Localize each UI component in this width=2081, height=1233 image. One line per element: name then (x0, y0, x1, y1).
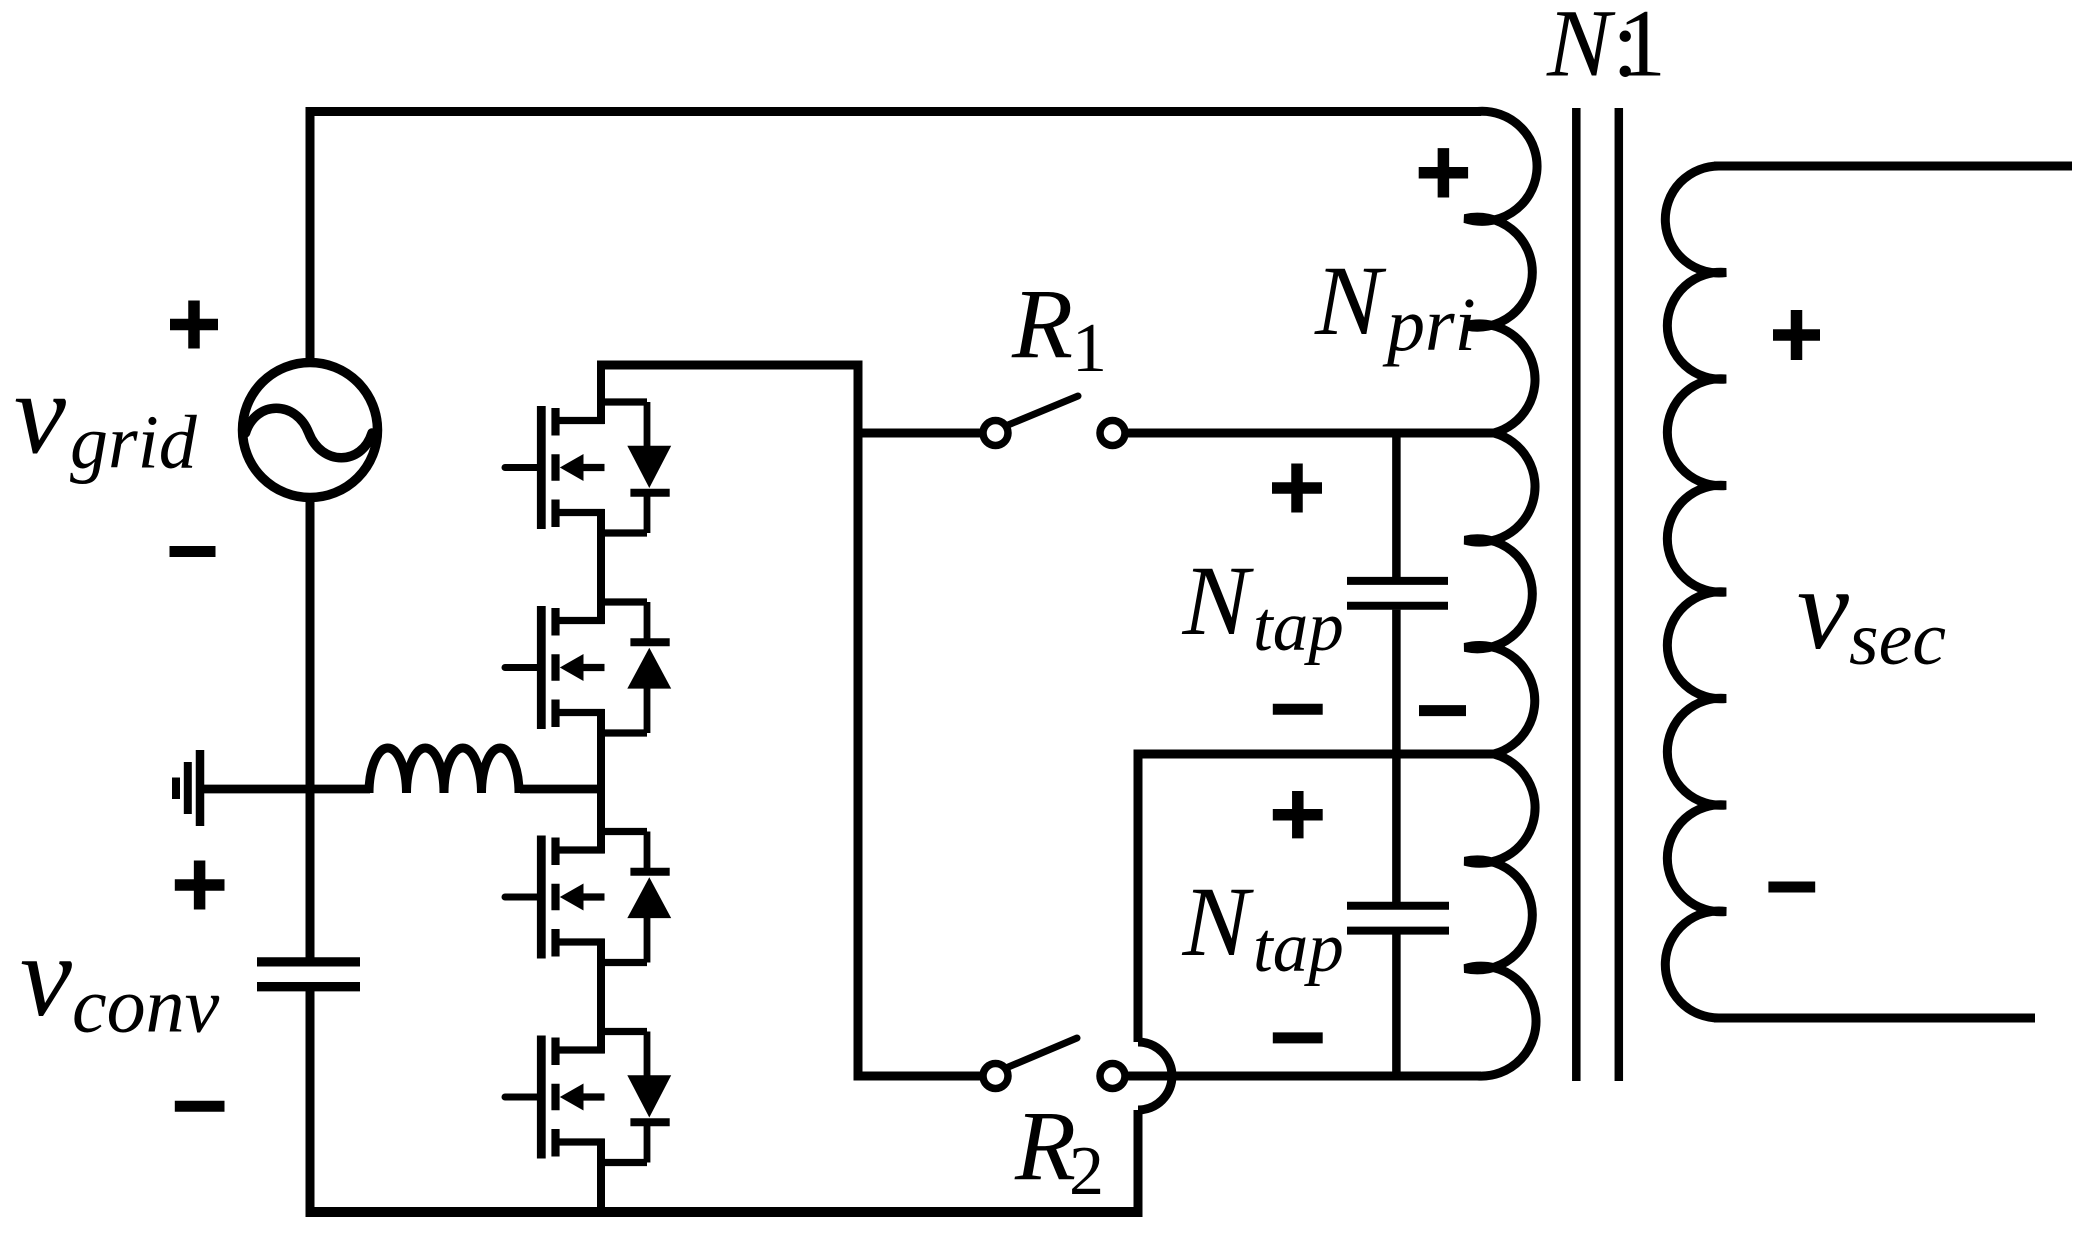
wire bridge rail segment Q4-bottom (597, 1163, 605, 1217)
label plus of Vsec (1773, 310, 1820, 360)
wire bottom rail (306, 1207, 1143, 1217)
wire secondary top (1714, 162, 2072, 171)
label minus of Ntap1 left (1273, 704, 1323, 715)
wire bridge top node horizontal (597, 361, 863, 370)
wire inductor to bridge mid node (520, 785, 605, 794)
wire hop over R2 wire (1138, 1042, 1172, 1110)
wire ground to node (204, 785, 370, 794)
svg-text:N: N (1314, 245, 1387, 356)
wire bridge rail segment top-node to Q1 (597, 361, 605, 403)
label minus of Vsec (1768, 882, 1815, 893)
label plus of Npri (1419, 148, 1468, 197)
label minus of Ntap2 (1273, 1032, 1323, 1043)
label minus of Ntap1 right (1419, 705, 1466, 716)
svg-text:tap: tap (1253, 909, 1344, 987)
transistor Q4 (505, 1028, 671, 1166)
svg-text:grid: grid (70, 401, 198, 485)
switch R1 blade (1008, 396, 1078, 425)
wire bridge rail segment Q1-Q2 (597, 533, 605, 602)
svg-text:conv: conv (72, 962, 220, 1049)
source Vgrid sine (246, 408, 373, 458)
wire tap2 horizontal (1134, 750, 1495, 759)
switch R1 right terminal (1100, 421, 1125, 446)
wire left rail lower (306, 991, 315, 1217)
wire capacitor string bottom (1392, 935, 1401, 1077)
source Vgrid circle (243, 363, 378, 498)
wire right vertical x=858 (854, 361, 863, 1081)
wire capacitor string top (1392, 433, 1401, 577)
svg-text:N: N (1182, 545, 1255, 656)
svg-text:N: N (1546, 0, 1616, 97)
label minus of Vconv (175, 1101, 225, 1112)
wire left rail middle (306, 494, 315, 958)
svg-text:1: 1 (1618, 0, 1666, 97)
transistor Q2 (505, 599, 671, 737)
svg-text:1: 1 (1072, 310, 1107, 387)
svg-text:2: 2 (1069, 1133, 1104, 1210)
svg-text:tap: tap (1253, 588, 1344, 666)
wire bridge rail segment Q2-Q3 (mid node) (597, 733, 605, 832)
label minus of Vgrid (170, 546, 216, 557)
wire to R1 left terminal (858, 429, 980, 438)
transistor Q3 (505, 828, 671, 966)
wire secondary bottom (1714, 1014, 2035, 1023)
svg-text:R: R (1014, 1090, 1076, 1201)
svg-text:pri: pri (1382, 283, 1476, 367)
wire bridge rail segment Q3-Q4 (597, 963, 605, 1032)
wire left rail upper (306, 107, 315, 365)
svg-text:v: v (20, 912, 72, 1041)
label plus of Ntap2 (1273, 791, 1323, 838)
transistor Q1 (505, 399, 671, 537)
ground symbol (176, 750, 200, 826)
label plus of Vconv (175, 861, 225, 910)
switch R2 blade (1006, 1038, 1077, 1068)
transformer primary winding (1465, 111, 1537, 1076)
wire to R2 left terminal (858, 1072, 980, 1081)
svg-text:N: N (1182, 866, 1255, 977)
label plus of Ntap1 (1272, 464, 1322, 513)
switch R1 left terminal (983, 421, 1008, 446)
inductor L (369, 748, 519, 793)
wire R2 to winding bottom (1128, 1072, 1481, 1081)
switch R2 left terminal (983, 1064, 1008, 1089)
svg-text:v: v (1797, 545, 1849, 674)
capacitor C2 (1347, 906, 1449, 931)
wire tap2 vertical lower (1134, 1110, 1143, 1212)
transformer core line right (1615, 108, 1624, 1081)
svg-text:sec: sec (1849, 597, 1946, 681)
switch R2 right terminal (1100, 1064, 1125, 1089)
wire R1 to tap 1 (1128, 429, 1494, 438)
wire top rail (306, 107, 1482, 116)
svg-text:R: R (1011, 268, 1073, 379)
capacitor Cconv (257, 962, 360, 987)
svg-text:v: v (14, 350, 66, 479)
wire capacitor string middle (1392, 610, 1401, 902)
capacitor C1 (1347, 581, 1448, 606)
wire tap2 vertical upper (1134, 750, 1143, 1043)
label plus of Vgrid (170, 301, 218, 349)
transformer core line left (1572, 108, 1581, 1081)
transformer secondary winding (1665, 166, 1726, 1018)
